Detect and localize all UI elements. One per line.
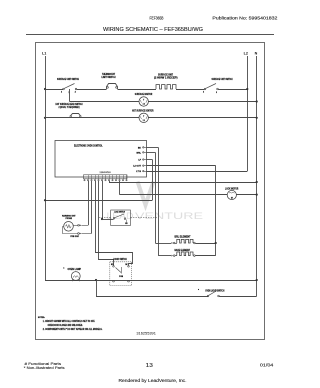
svg-text:WIRING SCHEMATIC – FEF365BU/WG: WIRING SCHEMATIC – FEF365BU/WG [103, 27, 203, 33]
svg-text:LOCK SWITCH: LOCK SWITCH [114, 212, 125, 214]
svg-text:BAKE ELEMENT: BAKE ELEMENT [175, 249, 191, 252]
svg-text:OVEN DOOR CLOSED AND UNLOCKED.: OVEN DOOR CLOSED AND UNLOCKED. [48, 324, 83, 327]
svg-text:SURFACE UNIT SWITCH: SURFACE UNIT SWITCH [212, 78, 233, 81]
svg-text:LT B: LT B [136, 171, 141, 173]
svg-text:2 (DUAL Y REQUIRED): 2 (DUAL Y REQUIRED) [59, 106, 80, 109]
svg-text:01/04: 01/04 [260, 363, 274, 368]
svg-text:SURFACE UNIT SWITCH: SURFACE UNIT SWITCH [57, 78, 79, 81]
svg-text:FEF365B: FEF365B [150, 15, 164, 20]
svg-text:M: M [231, 198, 233, 200]
svg-text:OVEN LAMP: OVEN LAMP [68, 268, 82, 271]
svg-text:316255391: 316255391 [136, 330, 156, 335]
svg-text:SURFACE UNIT: SURFACE UNIT [158, 74, 174, 77]
svg-text:3: 3 [216, 92, 217, 94]
svg-text:1 2: 1 2 [143, 120, 145, 122]
svg-text:PRB DISC: PRB DISC [70, 236, 79, 238]
svg-text:ELECTRONIC OVEN CONTROL: ELECTRONIC OVEN CONTROL [74, 145, 103, 147]
svg-text:L2: L2 [244, 51, 248, 55]
svg-text:L1: L1 [42, 51, 46, 55]
svg-text:LIMIT SWITCH: LIMIT SWITCH [102, 77, 116, 79]
svg-text:COM: COM [119, 276, 124, 278]
svg-text:N: N [255, 51, 258, 55]
svg-text:WARMING UNIT: WARMING UNIT [62, 214, 76, 217]
svg-text:2. COMPONENTS WITH * DO NOT: 2. COMPONENTS WITH * DO NOT APPEAR ON AL… [43, 328, 103, 331]
svg-text:SURFACE IGNITOR: SURFACE IGNITOR [135, 93, 153, 96]
svg-text:*: * [198, 288, 199, 292]
svg-text:Publication No: 5995401832: Publication No: 5995401832 [212, 15, 278, 20]
svg-text:HOT SURFACE IGNITOR: HOT SURFACE IGNITOR [132, 110, 154, 113]
svg-text:BK: BK [138, 147, 142, 149]
svg-text:NOTES:: NOTES: [38, 317, 45, 319]
svg-text:BRL: BRL [137, 152, 142, 154]
svg-text:BRL ELEMENT: BRL ELEMENT [175, 236, 192, 238]
svg-text:Rendered by LeadVenture, Inc.: Rendered by LeadVenture, Inc. [119, 378, 187, 383]
svg-text:VENTURE: VENTURE [135, 211, 203, 221]
svg-text:OVEN LIGHT SWITCH: OVEN LIGHT SWITCH [205, 290, 224, 292]
svg-text:HOT SURFACE HEAD SWITCH: HOT SURFACE HEAD SWITCH [56, 103, 83, 106]
svg-text:* Non-Illustrated Parts: * Non-Illustrated Parts [24, 365, 65, 370]
svg-text:4: 4 [203, 90, 204, 93]
svg-text:1 2: 1 2 [143, 104, 145, 106]
svg-text:4: 4 [61, 90, 62, 93]
svg-text:L2 OUT: L2 OUT [133, 166, 141, 168]
svg-text:PROBE: PROBE [66, 218, 73, 220]
svg-text:13: 13 [146, 363, 153, 369]
svg-text:1. CIRCUIT SHOWN WITH ALL CON: 1. CIRCUIT SHOWN WITH ALL CONTROLS SET T… [43, 320, 96, 323]
svg-text:2: 2 [75, 91, 76, 93]
svg-text:(2 600W 1 RECEP): (2 600W 1 RECEP) [154, 77, 178, 79]
svg-text:LOCK MOTOR: LOCK MOTOR [225, 189, 239, 191]
svg-text:DOOR SWITCH: DOOR SWITCH [114, 259, 127, 261]
svg-text:THERMOSTAT: THERMOSTAT [102, 73, 115, 76]
